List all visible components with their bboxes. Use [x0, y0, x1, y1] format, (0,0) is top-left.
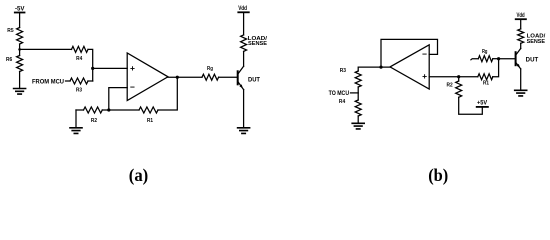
node R4/R3 junction: [91, 67, 94, 70]
wire: [109, 109, 139, 111]
svg-text:R5: R5: [7, 28, 13, 34]
node feedback junction: [107, 108, 110, 111]
ground: [352, 123, 364, 129]
resistor LOAD/SENSE: [518, 29, 546, 45]
node feedback tap: [379, 66, 382, 69]
resistor Rg: [202, 66, 219, 80]
svg-text:Rg: Rg: [482, 49, 488, 55]
wire: [76, 109, 84, 111]
node R2 junction: [457, 75, 460, 78]
wire: [219, 76, 237, 78]
wire: [357, 87, 359, 100]
svg-text:(a): (a): [129, 165, 149, 186]
resistor R4: [72, 46, 89, 62]
ground: [14, 89, 26, 95]
resistor R3: [70, 78, 88, 93]
power rail +5V: [477, 100, 488, 107]
wire: [357, 116, 359, 123]
svg-text:-5V: -5V: [15, 5, 25, 12]
svg-text:R1: R1: [147, 118, 153, 124]
power rail Vdd: [238, 5, 249, 12]
svg-text:Rg: Rg: [207, 66, 213, 72]
svg-text:+: +: [130, 63, 135, 73]
resistor R6: [6, 56, 23, 72]
wire: [93, 67, 128, 69]
svg-text:DUT: DUT: [248, 77, 260, 83]
wire: [520, 69, 522, 90]
svg-text:R1: R1: [483, 80, 489, 86]
svg-text:R6: R6: [6, 57, 12, 63]
svg-text:+: +: [422, 71, 427, 81]
wire: [109, 88, 127, 110]
op-amp U1: [127, 53, 168, 101]
svg-text:SENSE: SENSE: [527, 39, 546, 45]
wire: [20, 48, 72, 50]
svg-text:(b): (b): [428, 165, 448, 186]
transistor Q2 DUT: [516, 49, 539, 69]
wire: [168, 76, 202, 78]
wire: [88, 80, 93, 82]
wire: [493, 58, 499, 60]
svg-text:R3: R3: [340, 68, 346, 74]
wire: [243, 12, 245, 35]
resistor R1: [478, 74, 493, 87]
resistor Rg: [471, 49, 493, 62]
wire: [158, 77, 177, 110]
resistor R2: [84, 107, 103, 124]
resistor R4: [339, 99, 361, 116]
svg-text:Vdd: Vdd: [517, 12, 525, 19]
node R5/R6 junction: [18, 48, 21, 51]
svg-text:DUT: DUT: [526, 57, 539, 63]
svg-text:R2: R2: [447, 82, 453, 88]
wire: [351, 92, 359, 94]
ground: [515, 90, 527, 96]
wire: [493, 59, 499, 77]
wire: [66, 80, 71, 82]
ground: [70, 128, 82, 134]
svg-text:+5V: +5V: [477, 100, 488, 107]
wire: [520, 19, 522, 29]
svg-text:Vdd: Vdd: [238, 5, 247, 12]
svg-text:R3: R3: [76, 87, 82, 93]
wire: [88, 49, 93, 81]
wire: [19, 13, 21, 28]
wire: [19, 44, 21, 56]
resistor R2: [447, 81, 462, 97]
wire: [499, 58, 516, 60]
svg-text:R2: R2: [91, 118, 97, 124]
ground: [238, 128, 250, 134]
svg-text:R4: R4: [76, 56, 83, 62]
svg-text:TO MCU: TO MCU: [329, 90, 350, 97]
wire feedback loop: [381, 39, 438, 67]
wire: [243, 51, 245, 66]
resistor R3: [340, 68, 362, 87]
wire: [358, 67, 390, 71]
resistor LOAD/SENSE: [241, 35, 268, 52]
wire: [459, 77, 483, 115]
svg-text:FROM MCU: FROM MCU: [32, 78, 64, 85]
wire: [19, 72, 21, 89]
power rail Vdd: [516, 12, 526, 19]
wire: [243, 90, 245, 128]
power rail -5V: [15, 5, 25, 12]
svg-text:R4: R4: [339, 99, 346, 105]
wire: [102, 109, 109, 111]
wire: [520, 43, 522, 48]
wire: [75, 110, 77, 128]
node output junction: [176, 76, 179, 79]
svg-text:−: −: [130, 82, 135, 92]
transistor Q1 DUT: [238, 66, 261, 89]
wire: [429, 76, 478, 78]
svg-text:−: −: [422, 49, 427, 59]
op-amp U2: [390, 45, 429, 89]
resistor R5: [7, 28, 22, 45]
svg-text:SENSE: SENSE: [248, 41, 267, 47]
node base junction: [497, 57, 500, 60]
resistor R1: [139, 107, 158, 124]
